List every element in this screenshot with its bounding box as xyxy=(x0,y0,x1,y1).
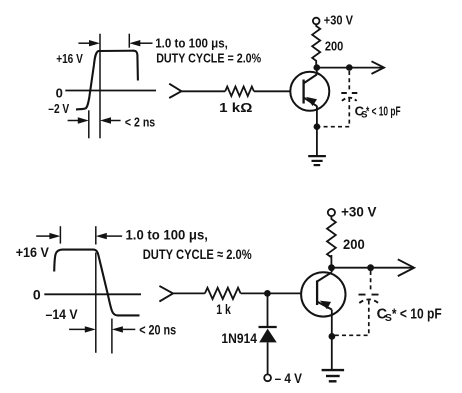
output wire (bottom) xyxy=(332,267,413,269)
wire R to base (top) xyxy=(254,90,291,92)
svg-text:< 20 ns: < 20 ns xyxy=(139,322,176,338)
diode D1 triangle (anode below, pointing up) xyxy=(259,329,277,343)
transistor Q1 circle xyxy=(290,72,329,111)
svg-text:1 kΩ: 1 kΩ xyxy=(219,100,252,115)
collector node dot (top) xyxy=(314,64,321,71)
Q1 collector diagonal xyxy=(304,75,317,84)
pulse width dimension arrow left (bottom) xyxy=(36,235,50,237)
svg-text:0: 0 xyxy=(56,85,63,100)
input pulse waveform (top, rising-edge pulse) xyxy=(76,51,138,110)
input chevron arrow (top) xyxy=(169,84,181,98)
diode anode wire down xyxy=(267,342,269,374)
input pulse waveform (bottom, falling-edge pulse) xyxy=(54,250,139,316)
input chevron arrow (bottom) xyxy=(159,286,173,302)
svg-text:* < 10 pF: * < 10 pF xyxy=(392,307,442,323)
capacitor CS* curved plate (dashed, bottom) xyxy=(359,299,378,303)
resistor 1 kOhm (horizontal zigzag) xyxy=(225,87,254,97)
ground (bottom) xyxy=(322,369,345,371)
svg-text:1N914: 1N914 xyxy=(221,330,257,346)
svg-text:< 2 ns: < 2 ns xyxy=(125,114,155,129)
dashed lead down and left to emitter (top) xyxy=(320,98,349,127)
stray capacitance CS dashed lead from output node (top) xyxy=(348,71,350,91)
Q2 emitter wire down xyxy=(331,310,333,371)
+30 V terminal (top) xyxy=(313,18,320,25)
ground (top) xyxy=(308,155,326,157)
svg-text:+16 V: +16 V xyxy=(16,244,50,260)
svg-text:DUTY CYCLE = 2.0%: DUTY CYCLE = 2.0% xyxy=(156,51,261,66)
fall time dimension arrow left (bottom) xyxy=(69,328,85,330)
svg-text:+30 V: +30 V xyxy=(324,13,353,28)
waveform axis 0 line (bottom) xyxy=(44,293,141,295)
measurement reference line (fall start, bottom) xyxy=(95,226,97,244)
diode D1 wire from node down xyxy=(267,293,269,327)
Q1 emitter arrow (points toward base, PNP) xyxy=(306,97,317,106)
base node dot (bottom) xyxy=(264,290,271,297)
pulse width dimension arrow left (top) xyxy=(78,42,90,44)
dashed lead down and left to emitter (bottom) xyxy=(335,301,369,336)
collector node dot (bottom) xyxy=(328,264,335,271)
diode D1 1N914 cathode bar xyxy=(259,326,277,328)
Q2 emitter diagonal xyxy=(317,302,332,310)
resistor 200 (vertical zigzag, top) xyxy=(312,24,320,67)
wire R to base node (bottom) xyxy=(241,292,302,294)
output arrowhead (top) xyxy=(372,61,385,74)
Q2 collector diagonal xyxy=(317,272,332,281)
emitter node dot (top) xyxy=(314,123,321,130)
-4 V terminal xyxy=(264,374,271,381)
output wire (top) xyxy=(317,67,383,69)
svg-text:– 4 V: – 4 V xyxy=(275,370,303,386)
Q2 collector wire up to node xyxy=(331,268,333,273)
Q1 emitter diagonal xyxy=(304,98,317,107)
svg-text:* < 10 pF: * < 10 pF xyxy=(366,104,401,119)
Q2 emitter arrow (points toward base, PNP) xyxy=(320,301,331,310)
measurement reference line (fall end, bottom) xyxy=(111,319,113,354)
svg-text:–14 V: –14 V xyxy=(46,306,79,322)
svg-text:DUTY CYCLE ≈ 2.0%: DUTY CYCLE ≈ 2.0% xyxy=(143,246,252,262)
Q1 base bar xyxy=(302,80,304,104)
tick pulse-width start (bottom) xyxy=(59,226,61,243)
capacitor CS* top plate (dashed, bottom) xyxy=(359,294,379,296)
output arrowhead (bottom) xyxy=(398,259,414,276)
svg-text:1.0 to 100 μs,: 1.0 to 100 μs, xyxy=(126,227,208,243)
measurement reference line (90% / pulse start, top) xyxy=(99,34,101,139)
waveform axis 0 line (top) xyxy=(65,90,156,92)
pulse width dimension arrow right (bottom) xyxy=(107,235,123,237)
resistor 1 k (horizontal zigzag, bottom) xyxy=(205,288,241,299)
+30 V terminal (bottom) xyxy=(328,209,335,216)
pulse width dimension arrow right (top) xyxy=(140,42,153,44)
output branch dot (bottom) xyxy=(367,264,374,271)
tick pulse-width end (top) xyxy=(128,34,130,48)
capacitor CS* top plate (dashed, top) xyxy=(341,92,357,94)
rise time dimension arrow right (top) xyxy=(111,120,121,122)
svg-text:0: 0 xyxy=(33,287,41,303)
wire chevron to R (top) xyxy=(181,90,225,92)
stray capacitance CS dashed lead from output node (bottom) xyxy=(370,271,372,291)
Q1 collector wire up to node xyxy=(316,68,318,75)
Q2 base bar xyxy=(316,280,318,305)
rise time dimension arrow left (top) xyxy=(68,120,79,122)
svg-text:+30 V: +30 V xyxy=(341,204,377,220)
resistor 200 (vertical zigzag, bottom) xyxy=(327,216,336,268)
output branch dot (top) xyxy=(346,64,353,71)
Q1 emitter wire down xyxy=(316,106,318,156)
svg-text:+16 V: +16 V xyxy=(56,51,83,66)
svg-text:1 k: 1 k xyxy=(216,301,231,317)
transistor Q2 circle xyxy=(301,272,345,316)
fall time dimension arrow right (bottom) xyxy=(123,328,136,330)
svg-text:200: 200 xyxy=(343,236,365,252)
capacitor CS* curved plate (dashed, top) xyxy=(342,98,357,101)
svg-text:S: S xyxy=(385,312,392,324)
svg-text:200: 200 xyxy=(325,38,343,53)
svg-text:1.0 to 100 μs,: 1.0 to 100 μs, xyxy=(155,35,228,50)
measurement reference line (10% point, top) xyxy=(88,110,90,138)
wire chevron to R (bottom) xyxy=(173,292,205,294)
emitter node dot (bottom) xyxy=(329,333,336,340)
svg-text:–2 V: –2 V xyxy=(48,101,69,116)
